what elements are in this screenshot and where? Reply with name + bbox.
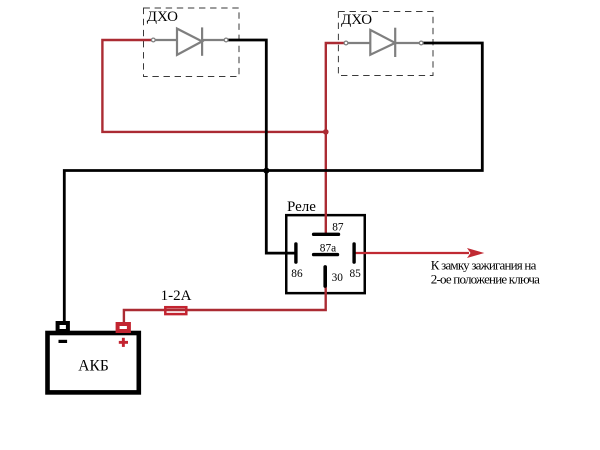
svg-text:85: 85: [350, 268, 362, 280]
svg-text:2-ое положение ключа: 2-ое положение ключа: [431, 271, 540, 286]
fuse F1 1-2A: [165, 307, 186, 314]
svg-text:АКБ: АКБ: [78, 358, 108, 375]
svg-text:ДХО: ДХО: [341, 12, 372, 28]
svg-text:1-2А: 1-2А: [161, 288, 192, 304]
relay pin 85 bar: [352, 244, 355, 262]
diode VD2 cathode terminal: [419, 41, 423, 45]
diode VD2 anode terminal: [344, 41, 348, 45]
diode VD2: [346, 28, 421, 57]
relay box: [286, 215, 365, 293]
DRL module 2 dashed box: [338, 12, 433, 76]
svg-text:30: 30: [332, 272, 344, 284]
node black junction: [263, 168, 269, 174]
svg-text:87a: 87a: [320, 243, 336, 255]
diode VD1 cathode terminal: [224, 38, 228, 42]
DRL module 1 dashed box: [144, 8, 240, 77]
arrowhead to ignition switch: [467, 248, 484, 258]
battery minus sign: [59, 340, 68, 343]
wire black: diode VD2 cathode right, down, left bus, down to battery minus: [64, 43, 482, 322]
svg-text:ДХО: ДХО: [147, 9, 178, 25]
battery АКБ body: [48, 333, 139, 392]
svg-text:Реле: Реле: [287, 199, 316, 215]
node red junction: [323, 129, 329, 135]
wire red: diode VD1 anode to left bus down to junction: [102, 40, 325, 132]
wire red: battery plus through fuse to relay pin 30: [124, 287, 326, 322]
svg-text:К замку зажигания на: К замку зажигания на: [431, 257, 537, 272]
wire black: diode VD1 cathode down to relay pin 86: [226, 40, 294, 253]
relay pin 30 bar: [323, 267, 327, 286]
diode VD1 anode terminal: [151, 38, 155, 42]
wire red: diode VD2 anode down to relay pin 87: [326, 43, 346, 233]
relay pin 87a bar: [314, 253, 338, 256]
wire red: relay pin 85 to ignition arrow: [356, 252, 470, 254]
svg-text:86: 86: [291, 268, 303, 280]
relay pin 86 bar: [294, 244, 297, 262]
diode VD1: [153, 27, 226, 55]
battery plus sign: [119, 338, 128, 347]
battery plus terminal: [118, 324, 129, 331]
svg-text:87: 87: [332, 221, 344, 233]
battery minus terminal: [58, 323, 68, 331]
relay pin 87 bar: [314, 233, 339, 236]
